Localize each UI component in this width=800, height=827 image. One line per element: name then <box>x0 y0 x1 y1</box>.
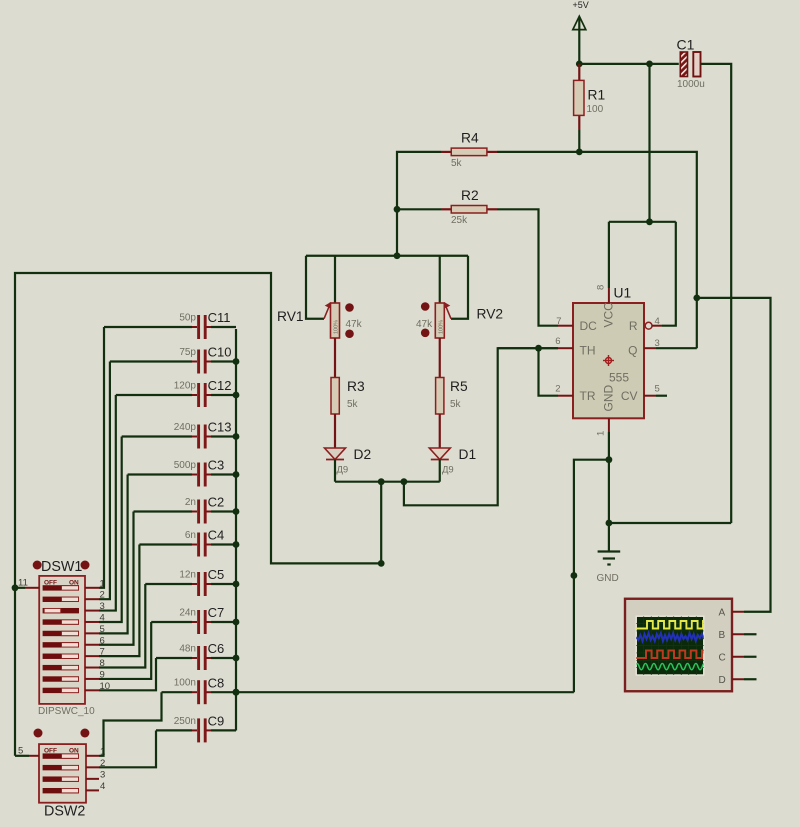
DSW2 switch 4 OFF <box>43 788 79 793</box>
DSW1 pin 8 <box>85 667 99 669</box>
DIP switch DSW1 body <box>39 576 85 704</box>
node VCC branch to U1 <box>646 61 653 68</box>
wire VCC rail horizontal <box>579 63 679 65</box>
svg-text:GND: GND <box>597 573 619 584</box>
wire R4 left branch <box>397 152 441 209</box>
wire C1 ground branch <box>609 522 731 524</box>
wire C13 right <box>211 435 236 437</box>
power +5V arrow symbol <box>573 16 586 29</box>
svg-text:1: 1 <box>596 431 607 436</box>
svg-text:C2: C2 <box>208 495 225 510</box>
wire C5 right <box>211 583 236 585</box>
DSW2 mounting dots <box>34 729 43 738</box>
svg-text:DIPSWC_10: DIPSWC_10 <box>38 706 95 717</box>
oscilloscope trace B blue noise <box>636 633 704 641</box>
svg-text:R1: R1 <box>588 88 606 103</box>
DSW2 pin 1 <box>86 755 99 757</box>
wire DSW1 pin 8 to capacitor <box>99 584 145 668</box>
wire TH to TR tie <box>539 348 559 396</box>
resistor R2 body <box>451 206 487 214</box>
DSW1 pin 5 <box>85 632 99 634</box>
capacitor C2 <box>192 511 197 513</box>
DSW1 pin 2 <box>85 598 99 600</box>
capacitor C5 <box>192 583 197 585</box>
wire C11 right <box>211 326 236 328</box>
wire RV top rail <box>306 255 468 257</box>
node bus at C12 <box>233 392 240 399</box>
svg-text:CV: CV <box>621 389 638 403</box>
svg-text:DC: DC <box>580 319 598 333</box>
resistor R4 pin stubs <box>441 151 451 153</box>
wire RV1 to R3 <box>334 338 336 378</box>
node bus at C4 <box>233 541 240 548</box>
capacitor C12 <box>192 394 197 396</box>
wire D2-D1 bottom rail <box>335 481 440 483</box>
node R1/R4 junction <box>576 149 583 156</box>
node bus at C6 <box>233 655 240 662</box>
potentiometer RV1 body <box>331 303 340 338</box>
node bus at C7 <box>233 619 240 626</box>
svg-text:C6: C6 <box>208 641 225 656</box>
svg-text:R3: R3 <box>347 379 365 394</box>
wire C9 right <box>211 729 236 731</box>
wire C10 right <box>211 360 236 362</box>
oscilloscope pin D <box>732 678 744 680</box>
resistor R1 body <box>574 80 584 115</box>
svg-text:C11: C11 <box>208 310 231 325</box>
oscilloscope pin B <box>732 633 744 635</box>
svg-text:U1: U1 <box>614 286 632 301</box>
wire C7 right <box>211 621 236 623</box>
wire RV1 wiper feed <box>306 256 324 319</box>
svg-text:GND: GND <box>602 385 616 412</box>
svg-text:C10: C10 <box>208 345 232 360</box>
wire R2 left stub <box>397 208 441 210</box>
svg-text:TH: TH <box>580 344 596 358</box>
svg-text:48n: 48n <box>179 644 196 655</box>
svg-text:Д9: Д9 <box>442 465 454 476</box>
capacitor C7 <box>192 621 197 623</box>
svg-text:RV2: RV2 <box>477 307 504 322</box>
U1 pin 4 bubble <box>645 322 652 329</box>
node RV rail junction <box>394 252 401 259</box>
wire DSW1 pin 7 to capacitor <box>99 545 139 657</box>
wire DSW1 pin 2 to capacitor <box>99 362 110 600</box>
DSW1 pin 6 <box>85 644 99 646</box>
wire DSW1 pin 4 to capacitor <box>99 437 122 622</box>
node unused on ground drop <box>571 572 578 579</box>
wire C11 left <box>104 326 192 328</box>
DSW2 pin 2 <box>86 766 99 768</box>
oscilloscope trace C red square wave <box>635 651 713 659</box>
svg-text:C1: C1 <box>677 37 695 53</box>
DSW1 pin 7 <box>85 655 99 657</box>
wire DSW1 pin 6 to capacitor <box>99 512 134 645</box>
svg-text:4: 4 <box>100 781 105 792</box>
svg-text:24n: 24n <box>179 608 196 619</box>
U1 pin 1 GND wire <box>608 418 610 432</box>
svg-text:D: D <box>719 675 726 686</box>
ground symbol <box>598 550 621 552</box>
DSW2 pin 3 <box>86 778 99 780</box>
node diode rail left <box>378 478 385 485</box>
svg-text:C3: C3 <box>208 458 225 473</box>
svg-text:Q: Q <box>628 344 637 358</box>
potentiometer RV2 wiper arrow <box>446 306 452 319</box>
DSW2 switch 1 OFF <box>43 753 79 758</box>
node GND cap-bus junction <box>606 456 613 463</box>
resistor R1 pin stubs <box>578 64 580 81</box>
wire C8 left <box>162 691 193 693</box>
node Q net scope branch <box>693 295 700 302</box>
DSW1 switch 2 OFF <box>43 597 79 602</box>
node GND C1 junction <box>606 520 613 527</box>
wire C13 left <box>122 435 192 437</box>
U1 pin 5 CV wire <box>644 395 656 397</box>
svg-text:75p: 75p <box>179 347 196 358</box>
wire DSW1 pin 9 to capacitor <box>99 622 151 679</box>
wire C10 left <box>110 360 192 362</box>
svg-text:47k: 47k <box>346 319 363 330</box>
U1 pin 2 TR wire <box>558 395 573 397</box>
diode D2 symbol <box>325 448 346 460</box>
svg-text:5k: 5k <box>451 158 463 169</box>
svg-text:1000u: 1000u <box>677 79 705 90</box>
DSW1 pin 10 <box>85 689 99 691</box>
wire C7 left <box>151 621 192 623</box>
svg-text:240p: 240p <box>174 422 197 433</box>
svg-text:R4: R4 <box>461 131 479 146</box>
wire DSW2 pin 2 to C9 <box>99 731 156 768</box>
oscilloscope screen <box>636 616 704 675</box>
wire C12 left <box>116 394 192 396</box>
DSW1 switch 5 OFF <box>43 631 79 636</box>
wire C3 right <box>211 473 236 475</box>
svg-text:47k: 47k <box>416 319 433 330</box>
wire DSW1 pin 3 to capacitor <box>99 395 116 611</box>
potentiometer RV2 adjust dots <box>421 302 430 311</box>
svg-text:DSW2: DSW2 <box>44 804 85 820</box>
wire C12 right <box>211 394 236 396</box>
capacitor C13 <box>192 436 197 438</box>
DSW1 switch 9 OFF <box>43 676 79 681</box>
op-amp U1 555 timer body <box>573 303 644 418</box>
wire RV1 top pin <box>334 256 336 303</box>
wire C4 left <box>139 543 192 545</box>
wire VCC node up to rail <box>648 64 650 222</box>
DSW1 pin 3 <box>85 610 99 612</box>
wire R2 right to DC pin <box>497 209 558 325</box>
resistor R2 pin stubs <box>441 208 451 210</box>
DSW2 pin 4 <box>86 789 99 791</box>
svg-text:C7: C7 <box>208 605 225 620</box>
svg-text:R5: R5 <box>450 379 468 394</box>
U1 pin 8 VCC wire <box>608 222 610 288</box>
svg-text:100%: 100% <box>438 320 444 334</box>
DSW2 pin 5 common <box>29 755 39 757</box>
wire Q output to scope A <box>697 298 771 612</box>
DSW1 switch 8 OFF <box>43 665 79 670</box>
svg-text:6: 6 <box>555 336 560 347</box>
resistor R4 body <box>451 148 487 156</box>
svg-text:R: R <box>629 319 638 333</box>
wire C8 bus to ground drop <box>236 691 574 693</box>
node VCC at R1 top <box>576 61 583 68</box>
DSW1 pin 4 <box>85 621 99 623</box>
svg-text:D1: D1 <box>459 447 477 462</box>
svg-text:25k: 25k <box>451 215 468 226</box>
DSW1 switch 3 ON <box>43 608 79 613</box>
DSW1 switch 7 OFF <box>43 654 79 659</box>
DSW1 switch 10 OFF <box>43 688 79 693</box>
svg-text:50p: 50p <box>179 313 196 324</box>
wire C5 left <box>145 583 192 585</box>
wire RV2 wiper feed <box>451 256 468 319</box>
svg-text:6n: 6n <box>185 530 196 541</box>
svg-text:100n: 100n <box>174 678 196 689</box>
node bus at C8 <box>233 689 240 696</box>
diode D1 symbol <box>429 448 450 460</box>
node bus at C3 <box>233 471 240 478</box>
svg-text:7: 7 <box>556 316 561 327</box>
U1 pin 4 reset wire <box>662 222 676 326</box>
svg-text:A: A <box>719 608 726 619</box>
svg-text:DSW1: DSW1 <box>41 559 82 575</box>
wire R5 to D1 <box>439 414 441 448</box>
svg-text:B: B <box>719 630 726 641</box>
wire +5V to VCC rail <box>578 17 580 64</box>
DSW1 mounting dots <box>33 561 42 570</box>
U1 pin 6 TH wire <box>558 347 573 349</box>
U1 pin 7 DC wire <box>558 325 573 327</box>
oscilloscope body <box>625 599 732 692</box>
svg-text:RV1: RV1 <box>277 309 304 324</box>
oscilloscope screen grid <box>636 616 704 675</box>
svg-text:120p: 120p <box>174 381 197 392</box>
node bus at C13 <box>233 433 240 440</box>
capacitor C9 <box>192 729 197 731</box>
wire C6 left <box>156 657 192 659</box>
svg-text:C4: C4 <box>208 528 225 543</box>
svg-text:+5V: +5V <box>573 0 589 10</box>
wire C8 right <box>211 691 236 693</box>
node R2 left junction <box>394 206 401 213</box>
wire RV2 top pin <box>439 256 441 303</box>
svg-text:500p: 500p <box>174 460 197 471</box>
svg-text:Д9: Д9 <box>337 465 349 476</box>
wire C2 right <box>211 510 236 512</box>
potentiometer RV2 body <box>435 303 444 338</box>
wire C1 right to ground rail <box>701 64 732 523</box>
svg-text:TR: TR <box>580 389 596 403</box>
wire diode rail to switch common <box>15 273 381 756</box>
DSW1 switch 6 OFF <box>43 642 79 647</box>
svg-text:250n: 250n <box>174 716 196 727</box>
U1 VCC net from node <box>609 221 676 223</box>
potentiometer RV1 wiper arrow <box>324 306 330 319</box>
capacitor C10 <box>192 361 197 363</box>
svg-text:C9: C9 <box>208 714 225 729</box>
potentiometer RV1 adjust dots <box>345 303 354 312</box>
capacitor C4 <box>192 544 197 546</box>
svg-text:C12: C12 <box>208 378 232 393</box>
svg-text:555: 555 <box>609 371 629 385</box>
node diode rail right <box>401 478 408 485</box>
svg-text:C: C <box>719 653 726 664</box>
svg-text:100: 100 <box>587 104 604 115</box>
svg-text:3: 3 <box>100 769 105 780</box>
svg-text:5k: 5k <box>450 399 462 410</box>
DSW1 pin 9 <box>85 678 99 680</box>
wire D2 to bottom rail <box>334 460 336 482</box>
svg-text:5: 5 <box>655 384 660 395</box>
svg-text:R2: R2 <box>461 188 479 203</box>
svg-text:8: 8 <box>596 285 607 290</box>
DSW1 switch 4 OFF <box>43 619 79 624</box>
wire D1 to bottom rail <box>439 460 441 482</box>
svg-text:3: 3 <box>655 338 660 349</box>
DSW1 switch 1 OFF <box>43 585 79 590</box>
wire DSW1 pin 5 to capacitor <box>99 475 128 634</box>
capacitor C3 <box>192 474 197 476</box>
svg-text:5: 5 <box>18 746 23 757</box>
wire R1 bottom to R4 rail <box>578 130 580 152</box>
DSW1 pin 11 common <box>25 587 39 589</box>
resistor R5 body <box>436 378 444 415</box>
wire DSW1 pin 10 to C6 <box>99 658 156 690</box>
node bus at C10 <box>233 358 240 365</box>
svg-text:D2: D2 <box>354 447 372 462</box>
wire R3 to D2 <box>334 414 336 448</box>
node TH/TR tie <box>535 345 542 352</box>
oscilloscope pin A <box>732 611 744 613</box>
svg-text:100%: 100% <box>334 320 340 334</box>
U1 pin 3 Q wire <box>644 347 656 349</box>
wire DSW1 pin 1 to capacitor <box>99 327 104 588</box>
DSW2 switch 2 OFF <box>43 765 79 770</box>
svg-text:2: 2 <box>555 384 560 395</box>
resistor R3 body <box>331 378 339 415</box>
wire diode rail to TH/TR <box>404 348 558 505</box>
oscilloscope pin C <box>732 656 744 658</box>
wire R2 junction to RV rail <box>396 209 398 255</box>
wire RV2 to R5 <box>439 338 441 378</box>
U1 origin marker <box>603 355 614 366</box>
wire capacitor common bus <box>235 329 237 731</box>
node bus at C5 <box>233 581 240 588</box>
wire DSW2 pin 1 to C8 <box>99 692 162 756</box>
svg-text:2n: 2n <box>185 497 196 508</box>
node bus at C2 <box>233 508 240 515</box>
svg-text:12n: 12n <box>179 570 196 581</box>
svg-text:5k: 5k <box>347 399 359 410</box>
oscilloscope trace A yellow square wave <box>635 621 714 629</box>
node switch common corner <box>378 560 385 567</box>
node VCC-R-8 junction <box>646 218 653 225</box>
svg-text:VCC: VCC <box>602 302 616 328</box>
svg-text:11: 11 <box>18 578 28 589</box>
wire C3 left <box>128 473 192 475</box>
DIP switch DSW2 body <box>39 744 86 803</box>
wire R4 right to Q output net <box>497 152 697 348</box>
wire C4 right <box>211 543 236 545</box>
DSW1 pin 1 <box>85 587 99 589</box>
capacitor C8 <box>192 691 197 693</box>
svg-text:4: 4 <box>655 316 660 327</box>
wire C6 right <box>211 657 236 659</box>
node C8 bus junction <box>233 689 240 696</box>
wire C2 left <box>134 510 193 512</box>
capacitor C6 <box>192 657 197 659</box>
capacitor C11 <box>192 326 197 328</box>
svg-text:C5: C5 <box>208 567 225 582</box>
svg-text:C8: C8 <box>208 675 225 690</box>
wire cap bus ground branch <box>574 460 609 693</box>
DSW2 switch 3 OFF <box>43 776 79 781</box>
svg-text:C13: C13 <box>208 420 232 435</box>
wire C9 left <box>156 729 192 731</box>
node common bus at pin 11 <box>12 584 19 591</box>
oscilloscope trace D green sine <box>635 664 719 670</box>
